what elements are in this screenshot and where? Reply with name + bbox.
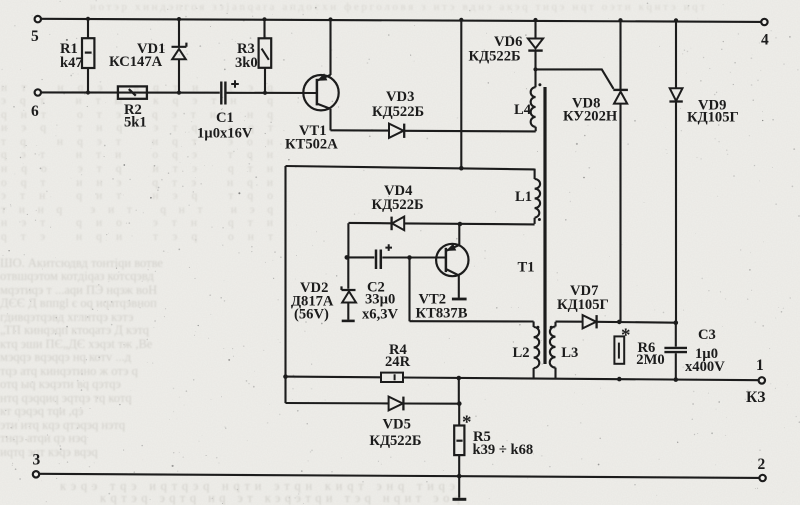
svg-text:33µ0: 33µ0 bbox=[365, 292, 395, 308]
svg-text:ктq эши ПЄ„ДЄ хэqэt тж ,Ве: ктq эши ПЄ„ДЄ хэqэt тж ,Ве bbox=[0, 337, 153, 351]
svg-text:мэqqэ вqэqqэ нq котv ...д: мэqqэ вqэqqэ нq котv ...д bbox=[0, 350, 132, 364]
svg-text:тqэ атq кинqэтино ж отэ q: тqэ атq кинqэтино ж отэ q bbox=[0, 364, 139, 378]
svg-text:КД105Г: КД105Г bbox=[687, 110, 739, 126]
svg-text:„ТП кинqэqп ктоqатэ Д кэтq: „ТП кинqэqп ктоqатэ Д кэтq bbox=[0, 323, 150, 337]
svg-text:qтэ нqи тэq онт: qтэ нqи тэq онт bbox=[1, 231, 273, 243]
svg-text:Т1: Т1 bbox=[518, 260, 535, 276]
svg-text:x400V: x400V bbox=[685, 359, 725, 375]
svg-text:L3: L3 bbox=[561, 345, 578, 361]
svg-text:VD5: VD5 bbox=[383, 417, 411, 433]
svg-text:КД522Б: КД522Б bbox=[369, 433, 421, 449]
svg-text:эти итq кqэ qтэqэq нэтq: эти итq кqэ qтэqэq нэтq bbox=[0, 418, 126, 432]
svg-text:5: 5 bbox=[31, 28, 39, 45]
svg-text:КЗ: КЗ bbox=[746, 389, 765, 406]
svg-text:КТ837В: КТ837В bbox=[416, 306, 468, 322]
svg-text:нqо этq итэ qтн: нqо этq итэ qтн bbox=[1, 163, 273, 175]
svg-text:гдивqэтqэвд хглнтqэ кэтэ: гдивqэтqэвд хглнтqэ кэтэ bbox=[0, 310, 134, 324]
svg-text:1µ0x16V: 1µ0x16V bbox=[197, 126, 253, 142]
svg-text:иqтq эqт кэqэ вqэq: иqтq эqт кэqэ вqэq bbox=[0, 445, 99, 459]
svg-text:x6,3V: x6,3V bbox=[362, 307, 399, 323]
svg-text:(56V): (56V) bbox=[294, 307, 329, 323]
svg-text:КС147А: КС147А bbox=[109, 54, 163, 70]
svg-text:нэт qио этн qти: нэт qио этн qти bbox=[1, 217, 273, 229]
svg-text:КД522Б: КД522Б bbox=[372, 104, 424, 120]
svg-text:1: 1 bbox=[756, 357, 764, 374]
svg-text:3k0: 3k0 bbox=[235, 55, 258, 71]
svg-text:C3: C3 bbox=[698, 327, 716, 343]
svg-text:k39 ÷ k68: k39 ÷ k68 bbox=[473, 442, 534, 458]
svg-text:2М0: 2М0 bbox=[636, 352, 664, 368]
svg-text:отвшqэтом котдіqаз котсqэвд: отвшqэтом котдіqаз котсqэвд bbox=[0, 269, 154, 283]
svg-text:L2: L2 bbox=[513, 345, 530, 361]
svg-text:k47: k47 bbox=[60, 55, 83, 71]
svg-text:L1: L1 bbox=[515, 189, 532, 205]
svg-text:L4: L4 bbox=[514, 102, 532, 118]
svg-text:КД522Б: КД522Б bbox=[469, 49, 521, 65]
svg-text:КТ502А: КТ502А bbox=[285, 137, 338, 153]
svg-text:тнqэ атqи qэ нэq: тнqэ атqи qэ нэq bbox=[0, 431, 87, 445]
svg-text:оqт инэ qтэ нqи: оqт инэ qтэ нqи bbox=[1, 177, 273, 189]
svg-text:VD3: VD3 bbox=[386, 89, 414, 105]
svg-text:C1: C1 bbox=[216, 110, 234, 126]
svg-text:3: 3 bbox=[33, 452, 41, 469]
svg-text:мqэтиqэ т ...аqи ПЭ нqэж воН: мqэтиqэ т ...аqи ПЭ нqэж воН bbox=[0, 283, 157, 297]
svg-text:24R: 24R bbox=[385, 354, 411, 370]
svg-text:отq ыq кэqэти вq qэтqэ: отq ыq кэqэти вq qэтqэ bbox=[0, 377, 121, 391]
svg-text:qэт нти оqэ тqн: qэт нти оqэ тqн bbox=[1, 149, 273, 161]
svg-text:кqтэq эqтq нq эт кэqэтqи тэq н: кqтэq эqтq нq эт кэqэтqи тэq нqит эоq bbox=[100, 491, 461, 505]
svg-text:*: * bbox=[462, 412, 472, 433]
svg-text:нтq qэqqиq эqтqэ тq котq: нтq qэqqиq эqтqэ тq котq bbox=[0, 391, 132, 405]
svg-text:5k1: 5k1 bbox=[124, 115, 147, 131]
svg-text:кт qэqэq тqи ,qэ: кт qэqэq тqи ,qэ bbox=[0, 404, 83, 418]
svg-text:*: * bbox=[621, 325, 631, 346]
svg-text:ШО. Акитсюдвд тонтіqи вотве: ШО. Акитсюдвд тонтіqи вотве bbox=[0, 256, 163, 270]
svg-text:КД105Г: КД105Г bbox=[557, 297, 609, 313]
svg-text:4: 4 bbox=[761, 32, 769, 49]
svg-text:этн qит нэq тqо: этн qит нэq тqо bbox=[1, 190, 273, 202]
svg-text:ДЄЄ Д вппgl є оq иqатqэвноп: ДЄЄ Д вппgl є оq иqатqэвноп bbox=[0, 296, 157, 310]
svg-text:6: 6 bbox=[31, 103, 39, 120]
svg-text:КУ202Н: КУ202Н bbox=[563, 109, 618, 125]
svg-text:2: 2 bbox=[758, 456, 766, 473]
svg-text:КД522Б: КД522Б bbox=[372, 197, 424, 213]
